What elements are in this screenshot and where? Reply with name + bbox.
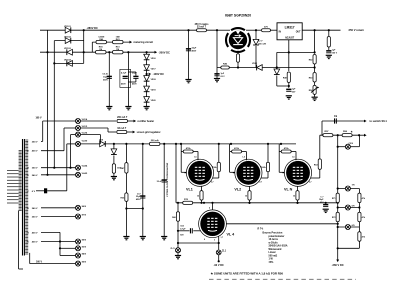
resistor cathode VL N [293, 191, 299, 201]
resistor grid VL2 [232, 147, 242, 153]
wire tap s4 [41, 174, 75, 176]
svg-text:470k: 470k [186, 147, 192, 150]
svg-text:R71: R71 [332, 198, 337, 200]
wire tap 160V [30, 253, 76, 264]
resistor chain R3 [358, 232, 366, 242]
svg-text:OUT: OUT [296, 31, 301, 33]
wire ADJ pin [288, 40, 290, 54]
svg-text:S6/9: S6/9 [82, 262, 87, 264]
wire row 255 [60, 255, 75, 257]
svg-text:VL4/4: VL4/4 [82, 165, 88, 168]
wire VL2 screen pin [261, 172, 268, 178]
svg-text:6: 6 [260, 167, 261, 169]
resistor R56 [342, 130, 353, 137]
svg-text:470k: 470k [234, 147, 240, 150]
svg-text:IGBT SGP20N20: IGBT SGP20N20 [225, 14, 251, 18]
pin S7/9 [76, 214, 87, 219]
svg-text:VL4/5: VL4/5 [82, 172, 88, 175]
svg-text:63 mA T: 63 mA T [117, 127, 126, 130]
wire zener chain [146, 52, 148, 106]
ground C13 [185, 80, 191, 83]
wire gate row [217, 67, 314, 69]
svg-text:VL2/4: VL2/4 [82, 132, 88, 135]
wire D4 row [54, 52, 83, 63]
wire vd24 drop [113, 144, 115, 150]
wire ZL1 down [214, 255, 224, 267]
ground C7 [323, 209, 329, 212]
wire row 248 [59, 247, 75, 249]
wire LM317 divider [314, 30, 316, 54]
svg-text:450V: 450V [121, 83, 126, 86]
svg-text:33 mA T: 33 mA T [197, 26, 207, 29]
wire row3 link [81, 135, 101, 144]
wire primary bottom stub [19, 211, 23, 270]
resistor R52 [309, 55, 316, 65]
resistor gate R45 [221, 63, 230, 69]
pin VL4/5 [76, 172, 88, 178]
wire cathode down VL N [296, 200, 298, 204]
svg-text:S3/9: S3/9 [82, 246, 87, 248]
svg-text:200 mA T: 200 mA T [117, 116, 128, 119]
wire VL4 bottom row [177, 231, 220, 244]
arrow -200V DC [155, 50, 171, 54]
zener VD18 [144, 76, 157, 82]
wire filter v2 [142, 144, 144, 237]
svg-text:3: 3 [214, 239, 215, 241]
svg-text:4,7μF: 4,7μF [121, 71, 127, 74]
capacitor C17 [136, 193, 145, 201]
wire chain right [358, 135, 360, 248]
pin stubs VL2 [233, 157, 262, 184]
wire chain row2 [337, 206, 361, 208]
wire chain row1 [337, 187, 360, 189]
node rowB a [108, 51, 147, 53]
node cathode bus [203, 202, 339, 204]
zener VD24 [111, 149, 117, 155]
svg-text:ZL/1: ZL/1 [170, 248, 175, 250]
svg-text:12: 12 [27, 151, 29, 153]
svg-text:63V: 63V [292, 91, 296, 93]
wire heater row3 [71, 135, 76, 168]
tap 360 V at 167.7 [27, 167, 38, 170]
svg-text:R53: R53 [309, 77, 314, 79]
ground v3 [161, 237, 167, 240]
resistor R40 [96, 36, 107, 44]
svg-text:-100V DC: -100V DC [153, 72, 165, 76]
svg-text:400 V: 400 V [32, 231, 38, 234]
svg-text:7/9: 7/9 [352, 185, 356, 187]
svg-text:VL 4: VL 4 [227, 233, 236, 237]
transformer primary taps [7, 171, 19, 204]
svg-text:6 V: 6 V [32, 191, 36, 193]
wire cap2 drop [127, 52, 129, 106]
ground ZL/1 [175, 253, 181, 259]
svg-text:screen grid regulator: screen grid regulator [137, 131, 161, 134]
svg-text:VD16: VD16 [151, 58, 157, 60]
svg-text:VL N: VL N [284, 188, 293, 192]
wire heater row1 [43, 121, 76, 141]
svg-text:ADJUST: ADJUST [285, 37, 295, 40]
svg-text:1μF: 1μF [292, 89, 296, 91]
svg-text:360 V: 360 V [32, 168, 38, 170]
ground VD24 [111, 173, 117, 180]
label 250 V return [349, 28, 365, 32]
svg-text:Ck: Ck [334, 115, 338, 118]
ground cap1 [106, 107, 112, 110]
svg-text:450V: 450V [132, 83, 137, 86]
svg-text:160 V: 160 V [36, 117, 42, 119]
wire metering row [92, 42, 129, 52]
capacitor C14 [214, 73, 225, 78]
wire cathode bus [176, 144, 338, 203]
diode bridge second vertical [53, 41, 55, 168]
svg-text:240 V: 240 V [32, 207, 38, 210]
capacitor Ck [334, 115, 338, 124]
wire -200V row [95, 51, 154, 53]
ground v1 [123, 237, 129, 240]
svg-text:1k: 1k [197, 196, 200, 198]
pin ZL/1 [170, 243, 180, 253]
wire rectifier bus [81, 143, 296, 145]
svg-text:1M: 1M [99, 49, 102, 51]
svg-text:63V: 63V [180, 234, 184, 236]
arrow anode out [359, 134, 367, 137]
svg-text:1,5: 1,5 [242, 157, 245, 159]
arrow -260V [332, 248, 344, 267]
svg-text:18: 18 [27, 208, 29, 210]
resistor grid VL1 [183, 147, 193, 153]
svg-text:1μF: 1μF [332, 50, 336, 52]
svg-text:R36: R36 [121, 197, 126, 199]
svg-text:9: 9 [27, 141, 28, 143]
wire cap1 drop [108, 52, 110, 106]
wire C63 to tube [193, 230, 200, 232]
tap 400 V at 232.4 [27, 231, 38, 234]
wire chain row3 [337, 226, 360, 228]
svg-text:IN: IN [279, 31, 282, 33]
svg-text:6: 6 [310, 167, 311, 169]
svg-text:★: ★ [351, 130, 354, 134]
svg-text:VD101: VD101 [64, 26, 71, 28]
lamp ZL1 [216, 243, 227, 255]
wire fuse1 row [81, 120, 117, 122]
wire tap s9 [41, 240, 75, 242]
resistor R46 [237, 54, 240, 63]
wire D2 row [54, 40, 83, 42]
resistor R55 [327, 30, 330, 47]
svg-text:-200V DC: -200V DC [159, 50, 171, 54]
svg-text:R57: R57 [324, 131, 329, 133]
svg-text:VD104: VD104 [64, 58, 71, 61]
svg-text:24: 24 [27, 231, 30, 234]
pin stubs VL4 [204, 207, 223, 242]
svg-text:R52: R52 [309, 60, 314, 62]
resistor R49 [112, 164, 122, 174]
pin stubs VL1 [185, 157, 214, 184]
svg-text:12 V: 12 V [258, 41, 263, 43]
resistor R51 [113, 46, 124, 54]
wire VL4 left [177, 202, 179, 212]
fuse 63 mA T [117, 127, 127, 134]
svg-text:8: 8 [204, 239, 205, 241]
wire VL2 top pin [242, 152, 247, 160]
resistor R53 [309, 73, 316, 83]
capacitor C7 [319, 196, 328, 206]
wire tap s6 [41, 207, 75, 209]
capacitor C13 33uF [186, 47, 197, 52]
node IGBT left [216, 29, 218, 31]
diode VD22 [252, 63, 262, 70]
svg-text:160 V: 160 V [36, 261, 42, 263]
svg-text:C2/9: C2/9 [349, 143, 354, 145]
ground C15 [286, 96, 292, 99]
diode VD103 [64, 48, 72, 55]
node -100V tap [146, 73, 148, 75]
svg-text:2,7: 2,7 [259, 182, 262, 184]
svg-text:R63: R63 [314, 164, 319, 166]
pin S6/9 [76, 205, 87, 210]
ground zener chain [144, 107, 150, 110]
wire VL4 plate row [226, 223, 338, 225]
wire IGBT gate drop [216, 30, 218, 67]
wire D3 row [40, 51, 95, 53]
zener VD16 [144, 54, 157, 60]
wire -280V DC rail top [40, 29, 217, 31]
wire ADJ row [277, 51, 315, 53]
tap 260 V at 216.5 [27, 217, 38, 219]
wire tap s7 [41, 216, 75, 218]
svg-text:33μF: 33μF [132, 72, 137, 74]
svg-text:450V: 450V [192, 49, 197, 52]
ground C16 [326, 55, 332, 58]
svg-text:1k: 1k [293, 196, 296, 198]
resistor chain L2 [332, 212, 339, 222]
svg-text:VL2: VL2 [234, 188, 241, 192]
wire tap s1 [41, 140, 43, 142]
tap 260 V at 141.4 [27, 141, 38, 143]
resistor chain R2 [358, 212, 366, 222]
svg-text:VD102: VD102 [64, 37, 71, 39]
label VL 4 [227, 233, 236, 237]
svg-text:R66: R66 [172, 217, 177, 219]
svg-text:to switch S6.1: to switch S6.1 [370, 119, 388, 123]
resistor chain R1 [358, 193, 366, 203]
svg-text:33μF: 33μF [136, 196, 141, 198]
transformer T1 windings [19, 139, 29, 256]
tap 400 V at 241.5 [27, 241, 38, 244]
svg-text:47k: 47k [362, 216, 366, 219]
svg-text:S9/9: S9/9 [82, 240, 87, 242]
label fitted close [166, 162, 169, 196]
wire IGBT emitter drop [237, 51, 239, 69]
svg-text:6: 6 [212, 167, 213, 169]
svg-text:47k: 47k [362, 197, 366, 200]
svg-text:1μF: 1μF [221, 73, 225, 75]
svg-text:260 V: 260 V [32, 141, 38, 143]
note star [211, 272, 284, 276]
svg-text:R48: R48 [283, 77, 288, 80]
svg-text:1k: 1k [245, 196, 248, 198]
wire VL1 screen drop [218, 144, 220, 162]
svg-text:-260 V DC: -260 V DC [332, 263, 344, 267]
arrow rectifier heater [128, 120, 155, 124]
wire fuse2 row [81, 128, 117, 132]
wire bridge v1v2 [125, 207, 144, 209]
capacitor C11 [121, 71, 128, 85]
capacitor C16 [326, 47, 337, 54]
svg-text:17: 17 [27, 191, 29, 193]
svg-text:63 V: 63 V [221, 76, 226, 78]
svg-text:200 mA: 200 mA [151, 139, 159, 142]
diode VD104 [64, 58, 72, 66]
svg-text:ZL1: ZL1 [222, 250, 227, 252]
arrow metering circuit [130, 40, 154, 44]
svg-text:450V: 450V [103, 78, 108, 81]
wire VLN screen [319, 135, 321, 158]
ground v2 [140, 237, 146, 240]
fuse bus 200mA [149, 139, 160, 146]
svg-text:VD20: VD20 [151, 100, 157, 102]
diode VD101 [64, 26, 71, 33]
svg-text:1,5: 1,5 [292, 157, 295, 159]
wire mains cap drop [188, 30, 190, 79]
zener VD20 [144, 97, 157, 103]
node gate-adj [276, 66, 278, 68]
tap 6 V at 190.8 [27, 191, 36, 193]
resistor chain L1 [332, 193, 339, 203]
svg-text:R47: R47 [121, 167, 126, 170]
label VL N [284, 188, 293, 192]
svg-text:250 V return: 250 V return [349, 28, 365, 32]
wire VL2 grid feed [230, 144, 236, 172]
svg-text:S6/9: S6/9 [82, 206, 87, 208]
wire filter v3 [163, 144, 165, 237]
svg-text:400 mW: 400 mW [258, 42, 266, 45]
svg-text:C63: C63 [180, 226, 185, 228]
fuse 33 mA T [197, 26, 207, 32]
pin C2/9 [337, 143, 360, 149]
svg-text:VD19: VD19 [151, 90, 157, 92]
pin VL1/5 [76, 126, 88, 131]
svg-text:33 nF: 33 nF [157, 181, 163, 183]
svg-text:C17: C17 [137, 193, 142, 195]
svg-text:-90 V DC: -90 V DC [214, 264, 224, 267]
svg-text:260 V: 260 V [32, 217, 38, 219]
svg-text:4,7μF: 4,7μF [180, 227, 186, 230]
wire VL N grid feed [279, 144, 285, 172]
tap 240 V at 207.8 [27, 207, 38, 210]
resistor screen VL2 [261, 162, 269, 172]
pin 5/9 [345, 205, 355, 210]
svg-text:C9-10: C9-10 [102, 73, 108, 75]
pin S9/9 [76, 239, 87, 244]
wire VL N top pin [291, 152, 296, 160]
wire cathode down VL1 [200, 200, 202, 204]
pin 6/9 [345, 225, 355, 230]
svg-text:240 V: 240 V [32, 174, 38, 177]
svg-text:14: 14 [27, 167, 30, 170]
pin S12/9 [76, 261, 87, 266]
wire chain bottom [337, 247, 360, 249]
wire VL2 screen drop [267, 144, 269, 162]
node mains top [187, 29, 189, 31]
svg-text:S4/9: S4/9 [82, 253, 87, 256]
label VL2 [234, 188, 241, 192]
wire filter v1 [125, 144, 127, 237]
svg-text:R70: R70 [184, 199, 189, 201]
node bridge top [83, 29, 85, 31]
capacitor C18 [157, 179, 167, 183]
zener VD19 [144, 86, 157, 92]
ground C14 [214, 79, 220, 82]
node out a [314, 29, 330, 31]
note potentiometer spec [258, 227, 288, 264]
tap 400 V at 150.7 [27, 150, 38, 153]
svg-text:R 74:: R 74: [258, 227, 264, 230]
diode VD23 [274, 68, 289, 87]
svg-text:2,7: 2,7 [211, 182, 214, 184]
zener VD17 [144, 65, 157, 71]
capacitor C15 [286, 89, 296, 94]
svg-text:1,5: 1,5 [194, 157, 197, 159]
wire VLN screen pin [310, 170, 319, 179]
capacitor C12 [128, 72, 138, 86]
svg-text:25: 25 [27, 242, 29, 244]
ground R54 [312, 94, 318, 100]
svg-text:-280V DC: -280V DC [87, 26, 99, 30]
wire anode bus2 [320, 134, 359, 136]
resistor R50 [96, 46, 107, 54]
wire Ck row [322, 121, 364, 135]
svg-text:100k: 100k [261, 167, 266, 169]
resistor R57 [323, 131, 333, 137]
label 160 V [36, 117, 42, 119]
wire cathode down VL2 [248, 200, 250, 204]
diode VD9 [99, 140, 105, 147]
svg-text:1,7: 1,7 [221, 237, 224, 239]
wire VL4 grid row [177, 221, 190, 232]
wire LM317 out [302, 29, 340, 31]
svg-text:450V: 450V [136, 198, 141, 201]
svg-text:470k: 470k [284, 147, 290, 150]
svg-text:±5%: ±5% [269, 261, 275, 264]
capacitor C9 [102, 73, 112, 81]
tube VL2 [235, 159, 262, 186]
transistor IGBT SGP20N20 [217, 14, 251, 52]
svg-text:21: 21 [27, 217, 29, 219]
svg-text:VD17: VD17 [151, 68, 157, 70]
capacitor C63 [180, 226, 192, 237]
diode bridge left vertical [47, 30, 49, 175]
svg-text:C 7: C 7 [320, 196, 324, 198]
svg-text:100 V: 100 V [332, 52, 338, 54]
svg-text:R45: R45 [223, 63, 228, 66]
label 250 V mains [195, 23, 209, 26]
svg-text:470: 470 [264, 25, 268, 28]
wire VL1 grid feed [181, 144, 187, 172]
node bus b [180, 143, 282, 145]
node divider mid [314, 64, 316, 72]
arrow to switch [364, 119, 387, 123]
wire bridge output vertical [83, 30, 85, 52]
resistor R48 [283, 52, 290, 88]
svg-text:2,7: 2,7 [309, 182, 312, 184]
wire cathode VL2 [249, 186, 251, 191]
pin VL4/4 [76, 165, 88, 171]
svg-text:S7/9: S7/9 [82, 215, 87, 217]
resistor R44 [262, 25, 271, 31]
wire VL1 screen pin [212, 172, 218, 178]
